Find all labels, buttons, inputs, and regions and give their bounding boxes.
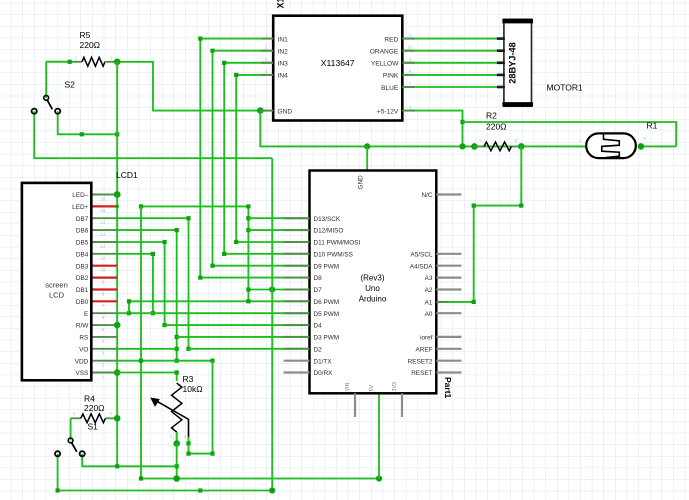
pin stub 3V3 unconnected xyxy=(401,393,403,417)
svg-text:DB5: DB5 xyxy=(76,240,89,247)
junction at D10 xyxy=(222,252,226,256)
pin leg R/W of LCD1 xyxy=(91,324,117,326)
pin leg D4 xyxy=(284,324,310,326)
bendpoint xyxy=(472,300,476,304)
bendpoint xyxy=(127,299,131,303)
pin leg overlay right xyxy=(402,74,414,76)
svg-text:D6 PWM: D6 PWM xyxy=(314,299,340,306)
bendpoint IN4 corner xyxy=(234,73,238,77)
bendpoint rail corner xyxy=(139,476,143,480)
svg-text:10: 10 xyxy=(101,268,106,273)
svg-text:D4: D4 xyxy=(314,323,323,330)
svg-text:5V: 5V xyxy=(369,384,375,391)
bendpoint xyxy=(186,452,190,456)
bendpoint VSS corner xyxy=(175,370,179,374)
pin leg RS of LCD1 xyxy=(91,336,117,338)
wire PINK to motor xyxy=(402,74,504,76)
svg-text:Arduino: Arduino xyxy=(359,295,387,304)
bendpoint IN3 corner xyxy=(222,61,226,65)
svg-text:A2: A2 xyxy=(425,287,433,294)
pin leg DB0 of LCD1 xyxy=(91,300,117,302)
junction at D4 row xyxy=(163,323,167,327)
junction VO joins v6 xyxy=(175,347,179,351)
svg-text:220Ω: 220Ω xyxy=(84,403,105,413)
svg-text:GND: GND xyxy=(278,108,293,115)
wire rail right segment xyxy=(641,145,676,147)
svg-text:D2: D2 xyxy=(314,346,323,353)
wire bypass loop to R1 right xyxy=(463,122,677,146)
svg-text:DB2: DB2 xyxy=(76,275,89,282)
pin leg LED- of LCD1 xyxy=(91,194,117,196)
svg-text:RED: RED xyxy=(384,36,398,43)
svg-text:11: 11 xyxy=(101,256,106,261)
wire to Arduino D2 xyxy=(189,348,310,350)
photoresistor R1 body xyxy=(586,133,636,158)
junction on lower rail xyxy=(173,475,180,482)
wire IN4 to D11 xyxy=(236,75,309,242)
svg-text:S2: S2 xyxy=(65,80,76,90)
wire S1 left terminal to bottom rail xyxy=(58,454,273,491)
pin leg D10 PWM/SS xyxy=(284,253,310,255)
wire E row to Arduino D5 xyxy=(117,312,309,314)
wire R3 bottom down xyxy=(176,444,178,479)
wire D7 row xyxy=(248,289,309,291)
pin leg overlay right xyxy=(402,50,414,52)
resistor R4 xyxy=(71,414,118,423)
junction R2 right xyxy=(518,143,525,150)
junction LED+ v3 tee xyxy=(139,204,143,208)
svg-text:N/C: N/C xyxy=(421,192,432,199)
pin leg overlay right xyxy=(402,110,414,112)
pin stub A2 unconnected xyxy=(436,288,461,290)
wire LED+ row run to D13/D12 xyxy=(141,206,248,301)
pin stub AREF unconnected xyxy=(436,348,461,350)
svg-text:D11 PWM/MOSI: D11 PWM/MOSI xyxy=(314,240,361,247)
IC X1 X113647 body xyxy=(273,16,402,121)
bendpoint xyxy=(80,132,84,136)
svg-text:A5/SCL: A5/SCL xyxy=(410,251,432,258)
bendpoint DB7 corner xyxy=(186,216,190,220)
svg-text:13: 13 xyxy=(101,232,106,237)
junction E jog xyxy=(127,311,131,315)
svg-text:AREF: AREF xyxy=(415,346,432,353)
svg-text:220Ω: 220Ω xyxy=(486,122,507,132)
wire DB7 down to D2 row xyxy=(117,218,188,349)
resistor R2 xyxy=(474,142,521,151)
svg-text:screen: screen xyxy=(45,281,68,290)
motor pin stub 5 xyxy=(497,86,505,89)
pin leg D0/RX unconnected xyxy=(284,371,310,373)
wire v1 main vertical xyxy=(116,62,118,467)
wire YELLOW to motor xyxy=(402,62,504,64)
svg-text:D3 PWM: D3 PWM xyxy=(314,335,340,342)
pin leg D9 PWM xyxy=(284,265,310,267)
svg-text:VO: VO xyxy=(79,346,88,353)
junction rail to Arduino GND xyxy=(364,143,370,149)
pin stub A0 unconnected xyxy=(436,312,461,314)
bendpoint IN1 corner xyxy=(198,37,202,41)
junction R1 right terminal xyxy=(638,143,645,150)
junction at D9 xyxy=(210,264,214,268)
wire GND to rail xyxy=(260,110,273,112)
pin leg overlay left xyxy=(261,74,273,76)
pin leg overlay right xyxy=(402,38,414,40)
svg-text:BLUE: BLUE xyxy=(381,85,399,92)
junction at rail xyxy=(459,143,465,149)
pin leg overlay right xyxy=(402,62,414,64)
svg-text:R5: R5 xyxy=(80,30,91,40)
pin stub ioref unconnected xyxy=(436,336,461,338)
svg-text:VDD: VDD xyxy=(75,358,89,365)
svg-text:RESET: RESET xyxy=(411,370,432,377)
pin stub A5/SCL unconnected xyxy=(436,253,461,255)
svg-text:IN3: IN3 xyxy=(278,61,289,68)
pin leg D12/MISO xyxy=(284,229,310,231)
svg-text:LCD1: LCD1 xyxy=(116,170,138,180)
wire VDD row xyxy=(117,360,212,362)
svg-text:A3: A3 xyxy=(425,275,433,282)
switch S2 xyxy=(32,95,61,113)
svg-text:R1: R1 xyxy=(647,121,658,131)
svg-text:16: 16 xyxy=(101,196,106,201)
svg-text:IN2: IN2 xyxy=(278,49,289,56)
junction at D3 row xyxy=(175,335,179,339)
pin leg D1/TX unconnected xyxy=(284,360,310,362)
pin leg D13/SCK xyxy=(284,217,310,219)
bendpoint VDD corner xyxy=(210,359,214,363)
pin leg GND overlay xyxy=(260,110,273,112)
pin leg overlay left xyxy=(261,38,273,40)
junction GND of X1 xyxy=(257,107,264,114)
svg-text:IN4: IN4 xyxy=(278,73,289,80)
wire +5-12V feed xyxy=(402,111,462,147)
svg-text:LED–: LED– xyxy=(72,192,88,199)
svg-text:15: 15 xyxy=(101,208,106,213)
bendpoint DB6 corner xyxy=(175,228,179,232)
wire S1 right terminal xyxy=(82,454,177,467)
svg-text:10kΩ: 10kΩ xyxy=(183,384,203,394)
junction at D8 xyxy=(198,276,202,280)
junction on v1 xyxy=(115,132,119,136)
wire DB4 down v4 xyxy=(117,254,153,313)
bendpoint on R5 lead xyxy=(68,60,72,64)
svg-text:X1: X1 xyxy=(276,0,286,9)
wire rail into R1 xyxy=(576,145,590,147)
junction D13 xyxy=(246,216,250,220)
junction xyxy=(115,464,119,468)
pin leg DB6 of LCD1 xyxy=(91,229,117,231)
junction bottom rail end xyxy=(269,487,275,493)
pin leg D2 xyxy=(284,348,310,350)
pin leg DB7 of LCD1 xyxy=(91,217,117,219)
bendpoint xyxy=(246,204,250,208)
svg-text:YELLOW: YELLOW xyxy=(371,61,399,68)
junction R5 right xyxy=(114,59,121,66)
junction R2 left xyxy=(471,143,478,150)
pin leg DB1 of LCD1 xyxy=(91,288,117,290)
bendpoint DB4 corner xyxy=(151,252,155,256)
svg-text:R2: R2 xyxy=(486,111,497,121)
wire GND down to supply rail xyxy=(260,111,586,147)
svg-text:X113647: X113647 xyxy=(321,58,355,68)
wire VSS to R3 top xyxy=(117,373,177,382)
pin leg VDD of LCD1 xyxy=(91,360,117,362)
pin leg D11 PWM/MOSI xyxy=(284,241,310,243)
bendpoint wiper leg xyxy=(186,441,190,445)
svg-text:DB1: DB1 xyxy=(76,287,89,294)
svg-text:D1/TX: D1/TX xyxy=(314,358,333,365)
junction 5V leg xyxy=(376,475,382,481)
svg-text:A0: A0 xyxy=(425,311,433,318)
junction LED- on v1 xyxy=(114,191,121,198)
bendpoint IN2 corner xyxy=(210,49,214,53)
wire BLUE to motor xyxy=(402,86,504,88)
svg-text:PINK: PINK xyxy=(383,73,399,80)
svg-text:D9 PWM: D9 PWM xyxy=(314,263,340,270)
svg-text:VIN: VIN xyxy=(345,382,351,391)
pin stub A4/SDA unconnected xyxy=(436,265,461,267)
svg-text:D10 PWM/SS: D10 PWM/SS xyxy=(314,251,353,258)
bendpoint xyxy=(519,204,523,208)
wire S2 right terminal to junction under R5 xyxy=(58,111,117,134)
LCD1 body xyxy=(22,183,91,380)
bendpoint DB5 corner xyxy=(163,240,167,244)
pin stub A3 unconnected xyxy=(436,277,461,279)
svg-text:RESET2: RESET2 xyxy=(408,358,433,365)
svg-text:IN1: IN1 xyxy=(278,36,289,43)
pin stub RESET unconnected xyxy=(436,371,461,373)
pin leg DB4 of LCD1 xyxy=(91,253,117,255)
wire jog up to D6 row xyxy=(129,301,310,313)
bendpoint xyxy=(472,204,476,208)
svg-text:MOTOR1: MOTOR1 xyxy=(547,83,583,93)
svg-text:A1: A1 xyxy=(425,300,433,307)
wire v3 vertical LED+ to VDD row and bottom rail xyxy=(141,206,379,478)
junction D7 to v14 xyxy=(269,286,275,292)
wire to Arduino D3 xyxy=(177,336,310,338)
pin leg E of LCD1 xyxy=(91,312,117,314)
endpoint of D7 wire xyxy=(246,287,250,291)
pin stub N/C unconnected xyxy=(436,193,461,195)
pin leg overlay left xyxy=(261,62,273,64)
svg-text:12: 12 xyxy=(101,244,106,249)
pin leg DB2 of LCD1 xyxy=(91,277,117,279)
wire ORANGE to motor xyxy=(402,50,504,52)
junction at D11 xyxy=(234,240,238,244)
wire to D12 xyxy=(248,229,309,231)
wire R4 left down to S1 xyxy=(70,418,72,440)
svg-text:LED+: LED+ xyxy=(72,204,88,211)
junction R3 bottom xyxy=(173,440,180,447)
svg-text:14: 14 xyxy=(101,220,106,225)
svg-text:E: E xyxy=(84,311,88,318)
wire R2 to A1 xyxy=(436,146,521,302)
pin leg overlay left xyxy=(261,50,273,52)
pin leg VSS of LCD1 xyxy=(91,372,117,374)
endpoint of LED+ leg on v1 xyxy=(116,205,119,208)
motor pin stub 3 xyxy=(497,61,505,64)
motor pin stub 1 xyxy=(497,37,505,40)
wire VO to v6 xyxy=(117,348,177,350)
pin leg DB5 of LCD1 xyxy=(91,241,117,243)
junction D12 xyxy=(246,228,250,232)
wire to D13 xyxy=(248,217,309,219)
wire R5 left lead down to S2 xyxy=(45,62,47,98)
svg-text:ORANGE: ORANGE xyxy=(370,49,399,56)
pin leg VO of LCD1 xyxy=(91,348,117,350)
wire rail down to Arduino GND pin xyxy=(366,146,368,170)
pin leg LED+ of LCD1 xyxy=(91,205,117,207)
bendpoint xyxy=(56,488,60,492)
svg-text:S1: S1 xyxy=(88,422,99,432)
svg-text:3V3: 3V3 xyxy=(392,382,398,391)
wire R5 to X1 GND row xyxy=(117,62,260,111)
motor pin stub 2 xyxy=(497,49,505,52)
pin leg D6 PWM xyxy=(284,300,310,302)
svg-text:11: 11 xyxy=(408,33,413,38)
motor pin stub 4 xyxy=(497,74,505,77)
wire IN1 to D8 xyxy=(200,39,309,278)
svg-text:DB4: DB4 xyxy=(76,251,89,258)
svg-text:+5-12V: +5-12V xyxy=(377,108,399,115)
svg-text:(Rev3): (Rev3) xyxy=(360,274,384,283)
bendpoint v6 to VDD row xyxy=(175,359,179,363)
pin leg DB3 of LCD1 xyxy=(91,265,117,267)
wire S2 left terminal long run to v14 xyxy=(34,111,272,158)
svg-text:10: 10 xyxy=(408,45,413,50)
svg-text:R/W: R/W xyxy=(76,323,89,330)
bendpoint xyxy=(198,488,202,492)
resistor R5 xyxy=(46,57,114,66)
svg-text:DB0: DB0 xyxy=(76,299,89,306)
pin stub VIN unconnected xyxy=(354,393,356,417)
junction xyxy=(175,464,179,468)
wire Arduino 5V leg down xyxy=(378,393,380,478)
wire RED to motor xyxy=(402,38,504,40)
pin leg D3 PWM xyxy=(284,336,310,338)
svg-text:Uno: Uno xyxy=(365,284,380,293)
svg-text:DB6: DB6 xyxy=(76,228,89,235)
Arduino Uno U1 body xyxy=(310,171,437,394)
svg-text:D13/SCK: D13/SCK xyxy=(314,216,341,223)
svg-text:ioref: ioref xyxy=(420,335,433,342)
wire wiper run down xyxy=(189,361,213,454)
svg-text:D7: D7 xyxy=(314,287,323,294)
pin leg D5 PWM xyxy=(284,312,310,314)
svg-text:Part1: Part1 xyxy=(443,377,453,399)
pin leg A1 xyxy=(436,301,448,303)
wire IN2 to D9 xyxy=(213,51,310,266)
junction R4 right on v1 xyxy=(114,415,121,422)
wire DB5 down v5 xyxy=(117,242,164,325)
junction VDD v3 xyxy=(139,359,143,363)
svg-text:R3: R3 xyxy=(183,374,194,384)
svg-text:VSS: VSS xyxy=(76,370,89,377)
junction at D2 row xyxy=(186,347,190,351)
junction R/W on v1 xyxy=(114,322,121,329)
wire to Arduino D4 xyxy=(165,324,310,326)
svg-text:D5 PWM: D5 PWM xyxy=(314,311,340,318)
pin leg D8 xyxy=(284,277,310,279)
stepper motor MOTOR1 body xyxy=(502,19,533,106)
endpoint of LED+ net on D6 row xyxy=(246,299,250,303)
svg-text:GND: GND xyxy=(358,175,365,190)
svg-text:LCD: LCD xyxy=(49,291,65,300)
svg-text:R4: R4 xyxy=(84,394,95,404)
svg-text:DB3: DB3 xyxy=(76,263,89,270)
svg-text:D8: D8 xyxy=(314,275,323,282)
wire DB6 down v6 xyxy=(117,230,177,361)
junction bypass tee xyxy=(460,120,464,124)
svg-text:D0/RX: D0/RX xyxy=(314,370,334,377)
pin leg D7 xyxy=(284,289,310,291)
switch S1 xyxy=(55,438,85,456)
pin stub RESET2 unconnected xyxy=(436,360,461,362)
bendpoint xyxy=(210,452,214,456)
wire IN3 to D10 xyxy=(224,63,309,254)
svg-text:A4/SDA: A4/SDA xyxy=(410,263,433,270)
svg-text:DB7: DB7 xyxy=(76,216,89,223)
svg-text:28BYJ-48: 28BYJ-48 xyxy=(507,42,517,83)
svg-text:D12/MISO: D12/MISO xyxy=(314,228,344,235)
wire v14 from S2 run down to bottom rail xyxy=(271,158,273,490)
svg-text:RS: RS xyxy=(79,335,88,342)
potentiometer R3 xyxy=(150,383,188,444)
svg-text:220Ω: 220Ω xyxy=(80,40,101,50)
pin leg overlay right xyxy=(402,86,414,88)
junction at E row xyxy=(151,311,155,315)
junction VSS on v1 xyxy=(114,369,121,376)
